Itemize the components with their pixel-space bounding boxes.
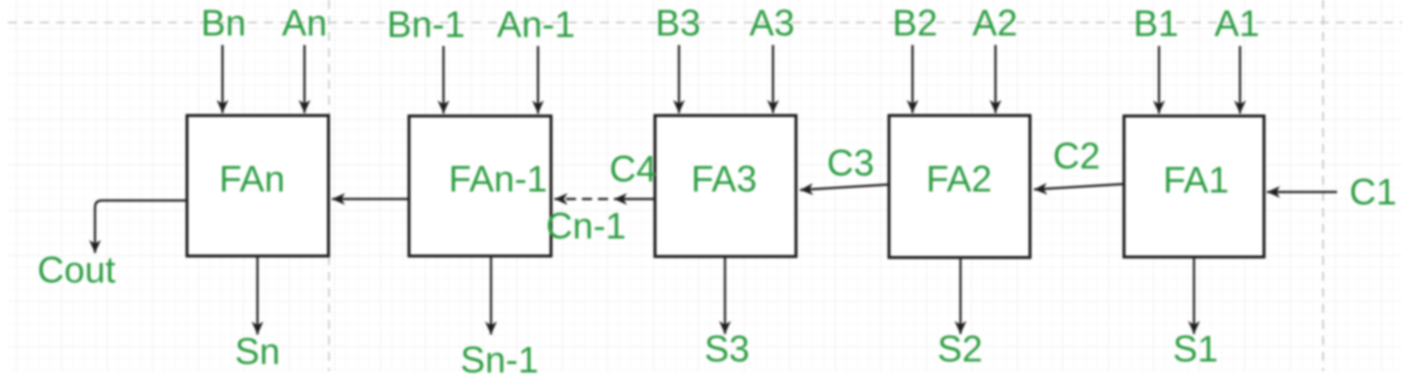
svg-text:An: An bbox=[282, 3, 327, 44]
svg-text:S2: S2 bbox=[937, 329, 982, 370]
svg-text:Cout: Cout bbox=[37, 250, 116, 291]
full adder FAn bbox=[187, 116, 329, 257]
wire C4 bbox=[609, 149, 656, 200]
svg-text:C1: C1 bbox=[1349, 172, 1396, 213]
input Bn bbox=[201, 3, 246, 114]
output S3 bbox=[704, 256, 749, 370]
input An bbox=[282, 3, 327, 114]
input An-1 bbox=[497, 4, 575, 114]
svg-text:C2: C2 bbox=[1053, 136, 1100, 177]
svg-text:FAn: FAn bbox=[219, 159, 285, 200]
svg-text:B3: B3 bbox=[655, 3, 700, 44]
svg-text:FA2: FA2 bbox=[926, 159, 992, 200]
wire Cn-1 (dashed continuation) bbox=[546, 199, 626, 247]
svg-text:B2: B2 bbox=[892, 3, 937, 44]
wire carry FAn-1 to FAn bbox=[332, 198, 409, 200]
svg-text:C4: C4 bbox=[609, 149, 656, 190]
svg-text:A3: A3 bbox=[749, 3, 794, 44]
output S1 bbox=[1173, 256, 1218, 370]
wire C3 bbox=[800, 143, 889, 191]
input B1 bbox=[1133, 3, 1178, 114]
svg-text:Bn: Bn bbox=[201, 3, 246, 44]
svg-text:C3: C3 bbox=[827, 143, 874, 184]
full adder FA2 bbox=[889, 116, 1030, 258]
svg-text:An-1: An-1 bbox=[497, 4, 575, 45]
svg-text:Sn: Sn bbox=[235, 331, 280, 372]
input B3 bbox=[655, 3, 700, 114]
full adder FA3 bbox=[655, 116, 796, 257]
input A1 bbox=[1214, 3, 1259, 114]
input A2 bbox=[972, 3, 1017, 114]
input A3 bbox=[749, 3, 794, 114]
wire C1 input bbox=[1267, 172, 1397, 213]
svg-text:Sn-1: Sn-1 bbox=[460, 340, 538, 380]
wire C2 bbox=[1034, 136, 1124, 190]
wire Cout bbox=[37, 201, 186, 291]
full adder FAn-1 bbox=[409, 116, 551, 256]
output S2 bbox=[937, 256, 982, 370]
svg-text:B1: B1 bbox=[1133, 3, 1178, 44]
svg-text:FAn-1: FAn-1 bbox=[449, 159, 548, 200]
svg-text:FA3: FA3 bbox=[691, 159, 757, 200]
input Bn-1 bbox=[387, 4, 465, 114]
svg-text:A2: A2 bbox=[972, 3, 1017, 44]
svg-text:Bn-1: Bn-1 bbox=[387, 4, 465, 45]
svg-text:FA1: FA1 bbox=[1163, 160, 1229, 201]
svg-text:Cn-1: Cn-1 bbox=[546, 206, 626, 247]
svg-text:A1: A1 bbox=[1214, 3, 1259, 44]
svg-text:S3: S3 bbox=[704, 329, 749, 370]
svg-text:S1: S1 bbox=[1173, 329, 1218, 370]
output Sn bbox=[235, 256, 280, 372]
full adder FA1 bbox=[1124, 116, 1264, 257]
output Sn-1 bbox=[460, 256, 538, 380]
input B2 bbox=[892, 3, 937, 114]
